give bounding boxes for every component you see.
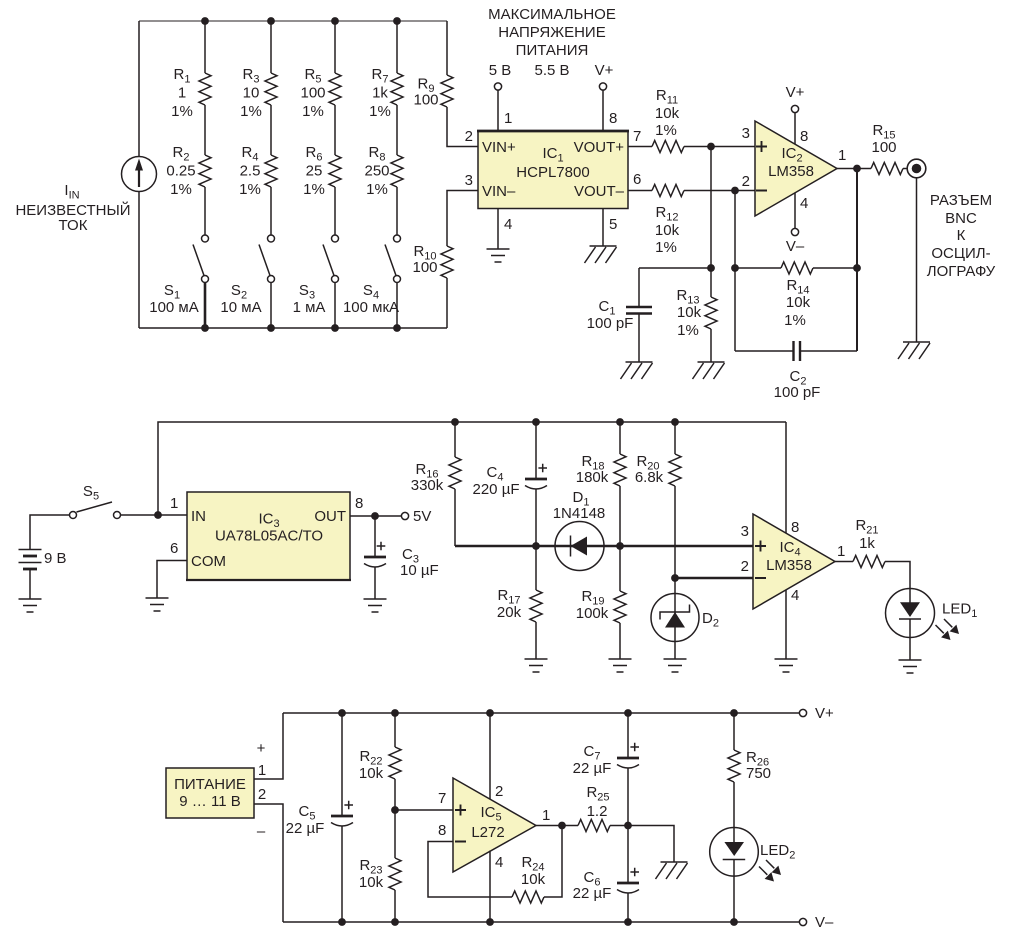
svg-text:22 µF: 22 µF <box>573 760 612 777</box>
wire bold row pin2 <box>675 577 753 579</box>
svg-text:1: 1 <box>504 110 512 127</box>
battery 9V <box>19 515 70 599</box>
svg-text:9 В: 9 В <box>44 550 67 567</box>
terminal 5V out <box>401 508 431 525</box>
svg-text:1%: 1% <box>239 181 261 198</box>
wire pin1 IC1 <box>498 90 512 131</box>
ground R19 <box>609 659 632 672</box>
svg-text:COM: COM <box>191 553 226 570</box>
wire column 4 <box>396 21 398 328</box>
svg-text:1%: 1% <box>369 103 391 120</box>
wire VIN- stub <box>447 190 478 193</box>
chassis ground C1 <box>621 362 653 379</box>
LED2 <box>710 828 796 923</box>
svg-text:100 pF: 100 pF <box>774 384 821 401</box>
svg-text:HCPL7800: HCPL7800 <box>516 164 589 181</box>
capacitor C5 <box>286 713 353 922</box>
svg-text:4: 4 <box>791 587 799 604</box>
svg-text:7: 7 <box>633 128 641 145</box>
svg-text:25: 25 <box>306 163 323 180</box>
svg-text:1: 1 <box>542 807 550 824</box>
svg-text:100 мкА: 100 мкА <box>343 299 399 316</box>
switch S5 <box>70 483 121 519</box>
svg-text:3: 3 <box>742 125 750 142</box>
chassis ground BNC <box>898 342 930 359</box>
wire pin4 IC2 V- <box>786 193 809 255</box>
svg-text:1: 1 <box>178 85 186 102</box>
resistor R26 <box>728 713 771 843</box>
svg-text:0.25: 0.25 <box>166 163 195 180</box>
wire pin4 IC5 <box>490 851 503 923</box>
svg-text:100 мА: 100 мА <box>149 299 199 316</box>
diode D1 1N4148 <box>553 489 606 571</box>
svg-text:1%: 1% <box>655 239 677 256</box>
svg-text:8: 8 <box>438 822 446 839</box>
svg-text:V+: V+ <box>595 62 614 79</box>
svg-text:К: К <box>957 227 966 244</box>
svg-text:22 µF: 22 µF <box>286 820 325 837</box>
capacitor C4 <box>473 422 548 546</box>
svg-text:3: 3 <box>741 523 749 540</box>
resistor R10 <box>412 191 453 328</box>
chassis ground R13 <box>693 362 725 379</box>
wire pin5 IC1 <box>603 209 617 247</box>
wire OUT 5V <box>350 495 401 520</box>
resistor R23 <box>359 810 401 922</box>
node B junction dots bottom rail <box>201 324 401 332</box>
svg-text:5: 5 <box>609 216 617 233</box>
svg-text:2: 2 <box>495 783 503 800</box>
svg-text:10 µF: 10 µF <box>400 562 439 579</box>
wire left vertical lower <box>138 192 140 329</box>
svg-text:1%: 1% <box>655 122 677 139</box>
svg-text:V–: V– <box>786 238 805 255</box>
svg-text:1%: 1% <box>302 103 324 120</box>
wire pin4 IC4 <box>786 587 799 659</box>
ground R17 <box>525 659 548 672</box>
resistor R14 <box>735 262 857 329</box>
wire IC2 output <box>837 147 871 172</box>
wire to chassis ground <box>628 826 674 863</box>
svg-text:1: 1 <box>170 495 178 512</box>
svg-text:1 мА: 1 мА <box>293 299 326 316</box>
svg-text:2: 2 <box>741 558 749 575</box>
svg-text:НАПРЯЖЕНИЕ: НАПРЯЖЕНИЕ <box>498 24 605 41</box>
resistor R24 <box>512 826 562 904</box>
op-amp IC4 <box>741 514 835 609</box>
wire pin8 IC4 <box>786 422 799 536</box>
resistor R12 <box>628 185 684 257</box>
resistor R11 <box>628 87 684 153</box>
svg-text:4: 4 <box>800 195 808 212</box>
svg-text:6: 6 <box>633 171 641 188</box>
svg-text:4: 4 <box>495 854 503 871</box>
svg-text:+: + <box>257 740 266 757</box>
svg-text:10k: 10k <box>655 222 680 239</box>
node A junction dots top rail <box>201 17 401 25</box>
resistor R1 <box>171 66 211 120</box>
resistor R15 <box>871 122 908 175</box>
resistor R9 <box>413 21 453 109</box>
BNC connector <box>907 159 926 178</box>
resistor R8 <box>364 144 403 198</box>
capacitor C7 <box>573 713 639 826</box>
svg-text:5V: 5V <box>413 508 431 525</box>
resistor R25 <box>578 784 628 832</box>
terminal 5V supply <box>494 83 501 90</box>
svg-text:1%: 1% <box>171 103 193 120</box>
svg-text:1: 1 <box>258 762 266 779</box>
svg-text:8: 8 <box>355 495 363 512</box>
svg-text:8: 8 <box>609 110 617 127</box>
svg-text:100 pF: 100 pF <box>587 315 634 332</box>
svg-text:1: 1 <box>837 543 845 560</box>
node R20 D2 junction <box>671 574 679 582</box>
node R22 R23 junction <box>391 806 399 814</box>
svg-text:V+: V+ <box>786 84 805 101</box>
wire pin8 IC1 <box>603 90 617 131</box>
svg-text:–: – <box>257 823 266 840</box>
wire node A vertical <box>707 147 715 272</box>
node dots middle rail <box>451 418 679 426</box>
svg-text:VOUT+: VOUT+ <box>574 139 625 156</box>
ground D2 <box>664 659 687 672</box>
svg-text:100: 100 <box>413 92 438 109</box>
svg-text:220 µF: 220 µF <box>473 481 520 498</box>
svg-text:8: 8 <box>800 128 808 145</box>
svg-text:750: 750 <box>746 765 771 782</box>
switch S1 <box>149 235 208 316</box>
svg-text:V+: V+ <box>815 705 834 722</box>
svg-text:2: 2 <box>742 173 750 190</box>
switch S3 <box>293 235 339 316</box>
wire pin2 IC5 <box>490 713 503 800</box>
svg-text:22 µF: 22 µF <box>573 885 612 902</box>
svg-text:BNC: BNC <box>945 210 977 227</box>
wire S5 to IC3 <box>121 495 188 519</box>
svg-text:ОСЦИЛ-: ОСЦИЛ- <box>931 245 990 262</box>
wire pin4 IC1 <box>498 209 512 250</box>
node dots top rail bottom section <box>338 709 738 717</box>
wire column 3 <box>334 21 336 328</box>
svg-text:UA78L05AC/TO: UA78L05AC/TO <box>215 528 323 545</box>
svg-text:100: 100 <box>412 259 437 276</box>
wire IC5 output <box>536 807 578 829</box>
wire R11 to +input <box>684 146 755 148</box>
switch S2 <box>220 235 274 316</box>
IC1 HCPL7800 <box>465 128 642 209</box>
node output row junction <box>624 822 632 830</box>
ground COM <box>146 598 169 611</box>
ground pin4 IC1 <box>487 249 510 262</box>
svg-text:2.5: 2.5 <box>240 163 261 180</box>
wire bottom bottom rail <box>283 921 799 923</box>
svg-text:6: 6 <box>170 540 178 557</box>
svg-text:IN: IN <box>191 508 206 525</box>
resistor R7 <box>369 66 403 120</box>
terminal V+ <box>799 705 834 722</box>
svg-text:7: 7 <box>438 790 446 807</box>
svg-text:8: 8 <box>791 519 799 536</box>
wire bold row D1 <box>455 542 753 550</box>
terminal V+ supply <box>599 83 606 90</box>
svg-text:L272: L272 <box>471 824 504 841</box>
svg-text:VOUT–: VOUT– <box>574 183 625 200</box>
svg-text:1%: 1% <box>303 181 325 198</box>
svg-text:1%: 1% <box>677 322 699 339</box>
LED1 <box>886 589 978 661</box>
resistor R6 <box>303 144 341 198</box>
svg-text:10k: 10k <box>677 304 702 321</box>
svg-text:10k: 10k <box>786 294 811 311</box>
resistor R13 <box>676 268 717 362</box>
svg-text:2: 2 <box>258 786 266 803</box>
svg-text:330k: 330k <box>411 477 444 494</box>
svg-text:LM358: LM358 <box>768 163 814 180</box>
resistor R2 <box>166 144 211 198</box>
wire S1 to bottom rail (bold) <box>204 283 207 329</box>
wire BNC ground <box>916 177 918 342</box>
terminal V- <box>799 914 834 931</box>
svg-text:4: 4 <box>504 216 512 233</box>
svg-text:VIN–: VIN– <box>482 183 516 200</box>
wire bottom rail <box>139 327 447 329</box>
svg-text:100: 100 <box>300 85 325 102</box>
svg-text:3: 3 <box>465 172 473 189</box>
svg-text:100k: 100k <box>576 605 609 622</box>
capacitor C3 <box>364 516 439 599</box>
wire bottom top rail <box>283 712 799 714</box>
resistor R20 <box>635 422 681 578</box>
svg-text:ТОК: ТОК <box>59 217 88 234</box>
ground battery <box>19 599 42 612</box>
wire pin7 IC5 <box>395 790 453 810</box>
svg-text:1k: 1k <box>859 535 875 552</box>
resistor R21 <box>853 517 910 603</box>
svg-text:1%: 1% <box>170 181 192 198</box>
svg-text:VIN+: VIN+ <box>482 139 516 156</box>
wire output vertical (bold) <box>853 169 861 352</box>
wire power pin2 <box>254 804 283 922</box>
svg-text:100: 100 <box>871 139 896 156</box>
power source box ПИТАНИЕ <box>166 768 254 818</box>
resistor R19 <box>576 546 626 659</box>
resistor R22 <box>359 713 401 810</box>
svg-text:LM358: LM358 <box>766 557 812 574</box>
svg-text:10k: 10k <box>359 874 384 891</box>
capacitor C2 <box>735 341 857 401</box>
svg-text:20k: 20k <box>497 604 522 621</box>
node dots bottom rail bottom section <box>338 918 738 926</box>
wire pin8 feedback <box>428 822 512 897</box>
svg-text:10k: 10k <box>359 765 384 782</box>
node junction R12 <box>731 187 739 195</box>
capacitor C1 <box>587 268 711 362</box>
svg-text:1N4148: 1N4148 <box>553 505 606 522</box>
chassis ground pin5 IC1 <box>585 246 617 263</box>
wire IC4 output <box>835 543 853 562</box>
label power pins <box>257 740 267 840</box>
ground C3 <box>364 599 387 612</box>
wire column 1 <box>204 21 206 235</box>
svg-text:ЛОГРАФУ: ЛОГРАФУ <box>927 263 996 280</box>
svg-text:РАЗЪЕМ: РАЗЪЕМ <box>930 192 992 209</box>
current source IIN <box>122 157 157 192</box>
wire middle top rail <box>158 422 786 515</box>
ground IC4 <box>775 659 798 672</box>
op-amp IC2 <box>742 121 837 216</box>
svg-text:МАКСИМАЛЬНОЕ: МАКСИМАЛЬНОЕ <box>488 6 616 23</box>
wire pin8 IC2 V+ <box>786 84 809 145</box>
wire left vertical upper <box>138 21 140 157</box>
label IIN unknown current <box>15 182 130 234</box>
svg-text:6.8k: 6.8k <box>635 469 664 486</box>
resistor R5 <box>300 66 341 120</box>
svg-text:1%: 1% <box>784 312 806 329</box>
svg-text:ПИТАНИЯ: ПИТАНИЯ <box>516 42 589 59</box>
svg-text:5.5 В: 5.5 В <box>534 62 569 79</box>
resistor R4 <box>239 144 277 198</box>
resistor R3 <box>240 66 277 120</box>
svg-text:V–: V– <box>815 914 834 931</box>
label BNC to oscilloscope <box>927 192 996 280</box>
svg-text:1%: 1% <box>366 181 388 198</box>
svg-text:10k: 10k <box>655 105 680 122</box>
resistor R16 <box>411 422 461 546</box>
svg-text:1k: 1k <box>372 85 388 102</box>
wire node B vertical <box>731 191 739 352</box>
wire R9 to VIN+ <box>447 107 478 147</box>
svg-text:10: 10 <box>243 85 260 102</box>
wire column 2 <box>270 21 272 328</box>
svg-text:10k: 10k <box>521 871 546 888</box>
svg-text:180k: 180k <box>576 469 609 486</box>
wire top rail <box>139 20 447 22</box>
wire COM pin6 <box>157 540 187 598</box>
svg-text:2: 2 <box>465 128 473 145</box>
resistor R18 <box>576 422 626 546</box>
resistor R17 <box>497 546 542 659</box>
svg-text:ПИТАНИЕ: ПИТАНИЕ <box>174 776 246 793</box>
svg-text:1.2: 1.2 <box>587 803 608 820</box>
svg-text:250: 250 <box>364 163 389 180</box>
switch S4 <box>343 235 401 316</box>
label maximum supply voltage <box>488 6 616 79</box>
svg-text:10 мА: 10 мА <box>220 299 261 316</box>
wire R12 to -input <box>684 190 755 192</box>
zener diode D2 <box>651 578 719 659</box>
node junction R11 <box>707 143 715 151</box>
capacitor C6 <box>573 826 639 923</box>
op-amp IC5 <box>453 778 536 872</box>
svg-text:5 В: 5 В <box>489 62 512 79</box>
svg-text:1: 1 <box>838 147 846 164</box>
ground LED1 <box>899 660 922 673</box>
svg-text:9 … 11 В: 9 … 11 В <box>179 793 240 810</box>
wire power pin1 <box>254 713 283 779</box>
IC3 UA78L05 <box>186 492 351 580</box>
svg-text:OUT: OUT <box>314 508 346 525</box>
svg-text:1%: 1% <box>240 103 262 120</box>
chassis ground bottom <box>656 862 688 879</box>
